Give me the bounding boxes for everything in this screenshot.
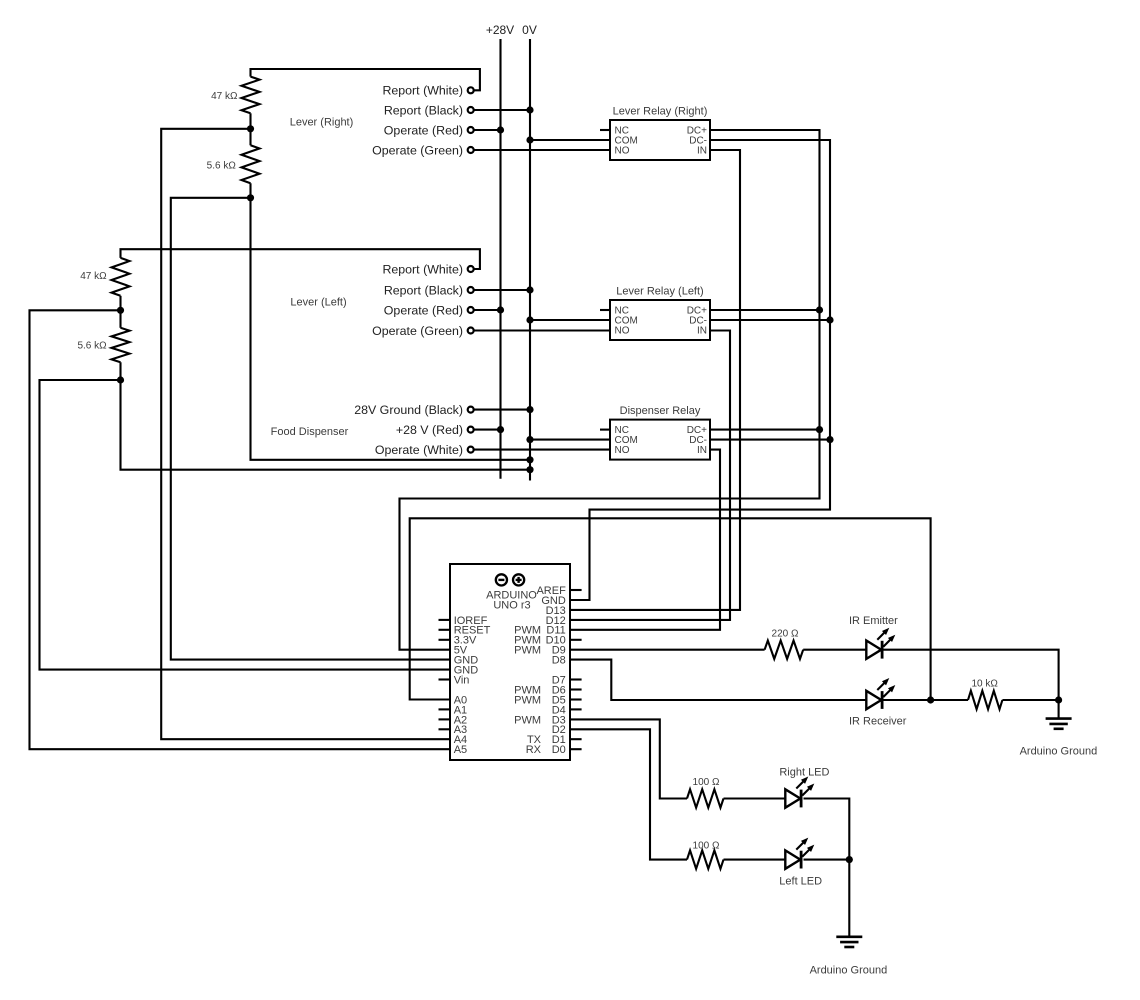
svg-text:Dispenser Relay: Dispenser Relay xyxy=(620,405,701,417)
svg-text:Report (Black): Report (Black) xyxy=(384,103,463,117)
svg-text:Operate (Green): Operate (Green) xyxy=(372,143,463,157)
svg-text:Left LED: Left LED xyxy=(779,875,822,887)
svg-text:Operate (Red): Operate (Red) xyxy=(384,303,463,317)
svg-text:NO: NO xyxy=(615,326,630,337)
svg-text:220 Ω: 220 Ω xyxy=(772,629,799,640)
svg-text:NO: NO xyxy=(615,445,630,456)
svg-text:Vin: Vin xyxy=(454,674,470,686)
svg-text:Operate (Red): Operate (Red) xyxy=(384,123,463,137)
svg-text:Right LED: Right LED xyxy=(779,766,829,778)
svg-text:IN: IN xyxy=(697,326,707,337)
svg-text:RX: RX xyxy=(526,744,542,756)
svg-text:IN: IN xyxy=(697,445,707,456)
svg-text:IR Emitter: IR Emitter xyxy=(849,615,898,627)
svg-text:Lever (Left): Lever (Left) xyxy=(290,297,346,309)
svg-text:100 Ω: 100 Ω xyxy=(693,777,720,788)
svg-text:Operate (Green): Operate (Green) xyxy=(372,324,463,338)
svg-text:D8: D8 xyxy=(552,655,566,667)
svg-text:PWM: PWM xyxy=(514,694,541,706)
svg-text:+28V: +28V xyxy=(486,23,514,37)
svg-text:0V: 0V xyxy=(522,23,537,37)
svg-text:Arduino Ground: Arduino Ground xyxy=(1020,745,1098,757)
svg-text:PWM: PWM xyxy=(514,714,541,726)
svg-text:5.6 kΩ: 5.6 kΩ xyxy=(77,341,107,352)
svg-text:Food Dispenser: Food Dispenser xyxy=(271,426,349,438)
svg-text:IR Receiver: IR Receiver xyxy=(849,716,907,728)
svg-text:Lever Relay (Left): Lever Relay (Left) xyxy=(616,286,703,298)
svg-text:+28 V (Red): +28 V (Red) xyxy=(396,423,463,437)
svg-text:PWM: PWM xyxy=(514,645,541,657)
svg-text:A5: A5 xyxy=(454,744,467,756)
svg-text:10 kΩ: 10 kΩ xyxy=(972,678,999,689)
svg-text:Report (Black): Report (Black) xyxy=(384,283,463,297)
svg-text:Lever Relay (Right): Lever Relay (Right) xyxy=(613,106,708,118)
svg-text:IN: IN xyxy=(697,146,707,157)
svg-text:Operate (White): Operate (White) xyxy=(375,443,463,457)
svg-text:UNO r3: UNO r3 xyxy=(493,599,530,611)
svg-text:100 Ω: 100 Ω xyxy=(693,841,720,852)
svg-text:Report (White): Report (White) xyxy=(382,262,463,276)
svg-text:28V Ground (Black): 28V Ground (Black) xyxy=(354,403,463,417)
svg-text:5.6 kΩ: 5.6 kΩ xyxy=(207,161,237,172)
svg-text:47 kΩ: 47 kΩ xyxy=(211,91,238,102)
svg-text:47 kΩ: 47 kΩ xyxy=(80,271,107,282)
svg-text:D0: D0 xyxy=(552,744,566,756)
svg-text:Arduino Ground: Arduino Ground xyxy=(810,964,888,976)
svg-text:Report (White): Report (White) xyxy=(382,84,463,98)
svg-text:NO: NO xyxy=(615,146,630,157)
svg-text:Lever (Right): Lever (Right) xyxy=(290,116,354,128)
